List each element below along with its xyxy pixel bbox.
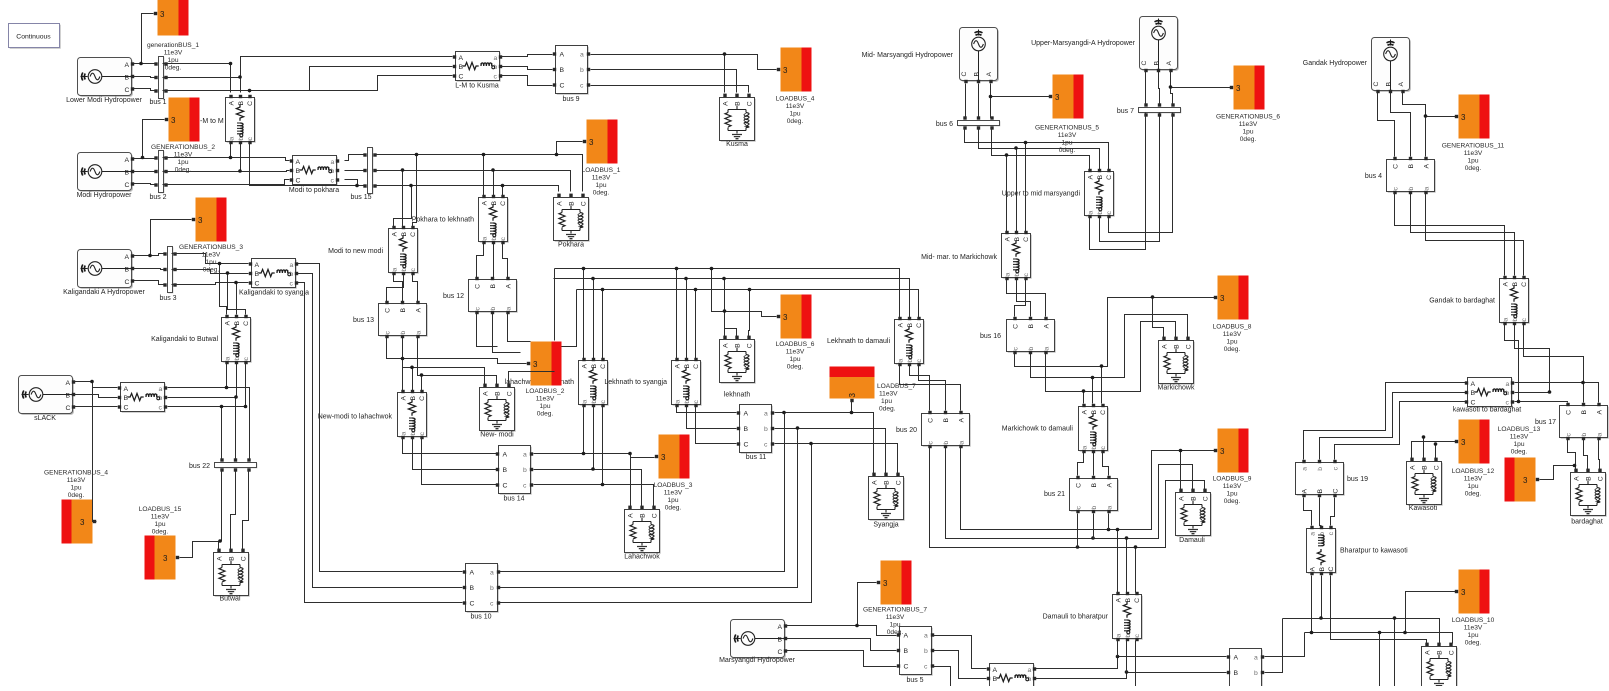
wire bha-kaw B down: [1321, 576, 1323, 619]
svg-text:11e3V: 11e3V: [1058, 132, 1077, 139]
wire tap to display LOADBUS_1: [557, 142, 583, 155]
svg-text:LOADBUS_15: LOADBUS_15: [139, 506, 182, 513]
svg-text:0deg.: 0deg.: [1240, 136, 1257, 143]
junction dots bus17 feeds: [1517, 381, 1585, 404]
svg-text:1pu: 1pu: [177, 159, 188, 166]
generator Upper-Marsyangdi-A Hydropower: [1140, 17, 1179, 73]
svg-text:Gandak Hydropower: Gandak Hydropower: [1303, 60, 1368, 67]
svg-text:LOADBUS_9: LOADBUS_9: [1213, 476, 1252, 483]
wire new-modi-lahachwok c to bus14 C: [422, 439, 497, 485]
svg-text:LOADBUS_12: LOADBUS_12: [1452, 468, 1495, 475]
wire bus4 b to gan-bard b: [1411, 194, 1515, 276]
svg-text:Kaligandaki to syangja: Kaligandaki to syangja: [239, 290, 309, 297]
svg-text:11e3V: 11e3V: [164, 50, 183, 57]
svg-text:Damauli: Damauli: [1179, 537, 1205, 544]
svg-text:11e3V: 11e3V: [1223, 331, 1242, 338]
wire branch to Damauli A: [1180, 451, 1182, 490]
wire sLACK A to line: [75, 382, 118, 388]
svg-text:LOADBUS_1: LOADBUS_1: [582, 167, 621, 174]
wire bus9-a run to display LOADBUS_4: [591, 55, 777, 70]
svg-text:bus 6: bus 6: [936, 121, 953, 128]
display generationBUS_1: [154, 0, 189, 36]
svg-text:11e3V: 11e3V: [151, 514, 170, 521]
wire drop to mid-mar A: [1006, 156, 1008, 232]
svg-text:0deg.: 0deg.: [1465, 165, 1482, 172]
wire tap to display LOADBUS_10: [1406, 592, 1456, 633]
wire G7-C to bus4 C: [1378, 93, 1395, 157]
bus 5 block: [897, 627, 934, 676]
svg-text:0deg.: 0deg.: [175, 167, 192, 174]
wire syangja-line a long run to bus10 A: [298, 264, 463, 572]
svg-text:bus 16: bus 16: [980, 333, 1001, 340]
svg-text:0deg.: 0deg.: [1465, 640, 1482, 647]
wire G1-C to bus 1: [134, 89, 156, 91]
wire G5-A to bus6: [991, 84, 992, 118]
wire kaw-bard c run to bus17 C: [1515, 402, 1568, 403]
display GENERATIOBUS_11: [1455, 95, 1490, 139]
wire mark-dam b to bus21 B: [1093, 453, 1095, 476]
svg-text:New- modi: New- modi: [480, 432, 514, 439]
svg-text:Bharatpur to kawasoti: Bharatpur to kawasoti: [1340, 548, 1408, 555]
junction dot GEN3 tap: [148, 254, 152, 258]
caption LOADBUS_15: [139, 506, 182, 536]
wire drop from y618: [1394, 619, 1396, 687]
svg-text:0deg.: 0deg.: [1511, 449, 1528, 456]
generator Gandak Hydropower: [1372, 38, 1411, 94]
wire branch to Kaligandaki to Butwal C: [228, 274, 246, 315]
bus 15 measurement bar: [363, 148, 376, 195]
wire New-modi C link: [509, 372, 555, 385]
wire bus11 a run to Syangja A: [775, 413, 874, 474]
svg-text:bus 21: bus 21: [1044, 491, 1065, 498]
load New- modi: [480, 384, 516, 432]
svg-text:bus 13: bus 13: [353, 317, 374, 324]
wire dam-bha B up: [1126, 539, 1128, 593]
svg-text:bus 10: bus 10: [470, 614, 491, 621]
wire G1-B to bus 1: [134, 77, 156, 78]
caption LOADBUS_12: [1452, 468, 1495, 498]
load Markichowk: [1159, 337, 1195, 385]
junction dot bardaghat A: [1573, 464, 1577, 468]
load Lahachwok: [625, 506, 661, 554]
svg-text:bus 2: bus 2: [149, 194, 166, 201]
svg-text:1pu: 1pu: [1226, 491, 1237, 498]
svg-text:bus 22: bus 22: [189, 463, 210, 470]
wire dam-bha C up: [1135, 548, 1137, 593]
svg-text:1pu: 1pu: [889, 622, 900, 629]
wire mark-dam c to bus21 A: [1103, 453, 1109, 476]
svg-text:0deg.: 0deg.: [537, 411, 554, 418]
wire bus19 A to bha-kaw a: [1304, 498, 1312, 526]
wire bus22 A drop: [221, 407, 223, 460]
junction dot G5 tap: [989, 95, 993, 99]
wire lek-dam b to bus20 C: [910, 366, 930, 411]
wire G8-C to bus 5: [787, 651, 897, 667]
bus 19 block: [1296, 460, 1345, 497]
wire lahachwok-lekhnath b down: [593, 407, 595, 470]
wire G5-B to bus6: [978, 84, 980, 118]
display LOADBUS_10: [1455, 570, 1490, 614]
wire branch to Kawasoti B: [1423, 438, 1425, 459]
svg-text:GENERATIONBUS_6: GENERATIONBUS_6: [1216, 114, 1280, 121]
wire gan-bard c down: [1524, 325, 1584, 383]
bus 18 block bottom edge: [1227, 649, 1264, 691]
wire K-to-Butwal a down: [226, 364, 228, 388]
svg-text:1pu: 1pu: [70, 485, 81, 492]
wire drop to Modi to new modi A: [394, 186, 412, 227]
wire branch to Kaligandaki to Butwal B: [236, 283, 238, 315]
display LOADBUS_2: [527, 342, 562, 386]
wire gan-bard b down: [1515, 325, 1550, 393]
svg-text:Upper to mid marsyangdi: Upper to mid marsyangdi: [1002, 191, 1081, 198]
wire bus1 A to display generationBUS_1: [142, 14, 154, 64]
wire G6-B to bus7: [1159, 72, 1160, 105]
wire drop to mid-mar B: [1016, 149, 1018, 232]
wire Modi to pokhara a to bus 15: [345, 155, 364, 161]
wire run-C to Lekhnath to damauli C: [577, 290, 919, 318]
wire new-modi-line b to bus13 C: [387, 275, 404, 302]
line at sLACK output: [118, 383, 167, 413]
line Kaligandaki to Butwal: [222, 315, 252, 364]
caption LOADBUS_4: [776, 96, 815, 126]
wire New-modi-to-lahachwok A up: [402, 359, 404, 391]
wire kaw-bard C left run to bus19 c: [1335, 402, 1466, 460]
svg-text:bus 14: bus 14: [503, 496, 524, 503]
svg-text:GENERATIONBUS_4: GENERATIONBUS_4: [44, 470, 108, 477]
junction dots Kawasoti feeds: [1422, 435, 1438, 446]
wire lek-dam c to bus20 B: [919, 366, 946, 411]
wire G1-A to bus 1: [134, 63, 156, 65]
svg-text:Kusma: Kusma: [726, 141, 748, 148]
line kawasoti to bardaghat: [1465, 378, 1514, 408]
svg-text:bus 12: bus 12: [443, 293, 464, 300]
wire display LOADBUS_13 link: [1540, 466, 1575, 480]
wire L-M to M a down: [230, 144, 232, 158]
wire run-A branch to LOADBUS_6: [712, 269, 777, 317]
wire bus5 c down: [934, 667, 951, 687]
wire slack-line a run: [168, 388, 250, 460]
svg-text:Pokhara: Pokhara: [558, 242, 584, 249]
wire bus10 c column: [500, 444, 812, 603]
wire New-modi-to-lahachwok C up: [421, 376, 423, 391]
wire bus20 b run to Damauli B: [946, 448, 1193, 539]
svg-text:bus 5: bus 5: [906, 677, 923, 684]
display GENERATIONBUS_7: [877, 561, 912, 605]
display LOADBUS_1: [583, 120, 618, 164]
wire new-modi-lahachwok b to bus14 B: [413, 439, 497, 470]
svg-text:Upper-Marsyangdi-A Hydropower: Upper-Marsyangdi-A Hydropower: [1031, 40, 1136, 47]
wire bus9-c to Kusma C: [591, 86, 749, 93]
svg-text:11e3V: 11e3V: [202, 252, 221, 259]
wire branch to Markichowk A: [1153, 298, 1164, 339]
wire lahachwok-lekhnath c down: [602, 407, 604, 485]
svg-text:bus 9: bus 9: [562, 96, 579, 103]
wire tap to display GENERATIOBUS_11: [1426, 116, 1456, 118]
wire bus10 b column: [500, 429, 798, 588]
wire bus22 C to Butwal C: [243, 470, 249, 550]
svg-text:Markichowk to damauli: Markichowk to damauli: [1002, 426, 1074, 433]
svg-text:0deg.: 0deg.: [1465, 491, 1482, 498]
svg-text:0deg.: 0deg.: [787, 364, 804, 371]
wire drop to Pokhara to lekhnath C: [502, 186, 504, 196]
wire L-M to Kusma a to bus 9 A: [502, 55, 553, 57]
caption GENERATIONBUS_7: [863, 607, 927, 637]
wire bus16 c run to LOADBUS_8: [1015, 298, 1215, 367]
line Lekhnath to damauli: [895, 317, 925, 366]
wire G8-A to bus 5: [787, 626, 897, 636]
load Syangja: [869, 473, 905, 521]
display LOADBUS_7 rotated: [830, 367, 875, 403]
svg-text:1pu: 1pu: [1226, 339, 1237, 346]
wire bus14 b run to Lahachwok B: [534, 470, 642, 507]
generator Marsyangdi Hydropower: [731, 620, 788, 659]
svg-text:LOADBUS_13: LOADBUS_13: [1498, 426, 1541, 433]
caption LOADBUS_2: [526, 388, 565, 418]
wire bus1-b up to L-M to Kusma A: [241, 57, 453, 78]
wire x554 stub: [554, 269, 556, 341]
bus 16 block: [1007, 317, 1056, 354]
svg-text:1pu: 1pu: [1061, 140, 1072, 147]
junction dots bus13 mesh: [401, 357, 424, 377]
svg-text:11e3V: 11e3V: [1464, 150, 1483, 157]
wire lekhnath-syangja c to bus11 C: [696, 407, 737, 444]
junction dots bus2 runs: [141, 156, 242, 173]
wire bus15-B run to Pokhara B: [375, 171, 571, 192]
svg-text:Continuous: Continuous: [16, 34, 51, 41]
wire bus17 B up: [1583, 383, 1585, 403]
svg-text:Kaligandaki to Butwal: Kaligandaki to Butwal: [151, 336, 218, 343]
wire G6-C to bus7: [1145, 72, 1147, 105]
svg-text:0deg.: 0deg.: [1224, 498, 1241, 505]
display LOADBUS_3: [655, 435, 690, 479]
wire run-C branch to lekhnath load C: [749, 290, 750, 337]
line Marsyangdi to damauli bottom edge: [987, 664, 1036, 691]
wire bus12 c drop: [477, 314, 498, 347]
wire kaw-bard a run to bus17 A: [1515, 383, 1599, 403]
junction dots bottom right: [1310, 616, 1407, 634]
wire mid-mar b to bus16 B: [1017, 280, 1031, 317]
svg-text:GENERATIOBUS_11: GENERATIOBUS_11: [1442, 143, 1505, 150]
svg-text:0deg.: 0deg.: [1224, 346, 1241, 353]
svg-text:Modi Hydropower: Modi Hydropower: [77, 192, 133, 199]
line Upper to mid marsyangdi: [1085, 169, 1115, 218]
junction dots bus14 runs: [582, 452, 632, 487]
wire bus1-c long run to L-M to Kusma C: [250, 76, 453, 91]
wire display LOADBUS_12 to Kawasoti A: [1412, 442, 1456, 459]
wire drop to Modi to new modi B: [402, 171, 404, 227]
junction dots bottom bus feeds: [1116, 655, 1129, 674]
wire pok-lek a to bus12 C: [477, 244, 484, 278]
wire dam-bha A up: [1117, 530, 1119, 593]
wire bus6 C run to upper-mid A: [992, 128, 1090, 170]
svg-text:0deg.: 0deg.: [593, 190, 610, 197]
svg-text:11e3V: 11e3V: [664, 490, 683, 497]
generator Lower Modi Hydropower: [78, 58, 135, 97]
svg-text:LOADBUS_8: LOADBUS_8: [1213, 324, 1252, 331]
svg-text:0deg.: 0deg.: [68, 492, 85, 499]
junction dot G6 tap: [1169, 85, 1173, 89]
svg-text:Kaligandaki A Hydropower: Kaligandaki A Hydropower: [63, 289, 145, 296]
wire bus14 a run to display LOADBUS_3: [534, 454, 655, 458]
display GENERATIONBUS_4 mirrored: [62, 500, 97, 544]
load Pokhara: [554, 194, 590, 242]
generator Mid-Marsyangdi Hydropower: [960, 28, 999, 84]
wire bus6 A run to upper-mid C: [965, 128, 1109, 170]
wire pok-lek c to bus12 A: [503, 244, 508, 278]
svg-text:kawasoti to bardaghat: kawasoti to bardaghat: [1453, 407, 1522, 414]
bus 7 measurement bar: [1139, 103, 1182, 116]
bus 1 measurement bar: [154, 57, 167, 100]
junction dots bus16 runs: [1082, 295, 1155, 393]
svg-text:LOADBUS_3: LOADBUS_3: [654, 482, 693, 489]
wire bus3-C run to Kaligandaki to syangja C: [172, 283, 249, 285]
line Markichowk to damauli: [1079, 404, 1109, 453]
svg-text:bus 17: bus 17: [1535, 419, 1556, 426]
wire bus18 a up to run y632: [1265, 633, 1305, 657]
load Butwal: [214, 549, 250, 597]
svg-text:Mid- mar. to Markichowk: Mid- mar. to Markichowk: [921, 254, 997, 261]
wire drop to Lekhnath-syangja A: [676, 269, 678, 359]
wire bus1-c run: [163, 91, 250, 93]
line Mid- mar. to Markichowk: [1002, 231, 1032, 280]
wire bus1-b run: [163, 78, 241, 93]
svg-text:Lahachwok: Lahachwok: [624, 554, 660, 561]
caption GENERATIONBUS_4: [44, 470, 108, 500]
wire lahachwok-lekhnath a down: [583, 407, 585, 454]
svg-text:GENERATIONBUS_7: GENERATIONBUS_7: [863, 607, 927, 614]
wire new-modi-line a to bus13 B: [394, 275, 403, 302]
wire drop to mid-mar C: [1025, 143, 1027, 232]
svg-text:1pu: 1pu: [539, 403, 550, 410]
wire lekhnath-syangja a to bus11 A: [677, 407, 737, 413]
wire G5-C to bus6: [965, 84, 966, 118]
display LOADBUS_8: [1214, 276, 1249, 320]
wire kaw-bard b run: [1515, 392, 1550, 394]
wire bus11 c run to Syangja C: [775, 444, 898, 474]
wire bus17 a to bardaghat C: [1599, 440, 1600, 470]
wire dam-bha a down: [1117, 641, 1119, 657]
junction dots bus22 feeds: [220, 386, 248, 409]
caption LOADBUS_9: [1213, 476, 1252, 506]
svg-text:Gandak to bardaghat: Gandak to bardaghat: [1429, 298, 1495, 305]
wire bus22 A to Butwal junction: [221, 470, 223, 542]
junction dot Kusma A tap: [723, 52, 727, 56]
load bardaghat: [1571, 469, 1607, 517]
svg-text:GENERATIONBUS_5: GENERATIONBUS_5: [1035, 125, 1099, 132]
svg-text:Mid- Marsyangdi Hydropower: Mid- Marsyangdi Hydropower: [862, 52, 954, 59]
wire G3-C to bus 3: [134, 281, 165, 285]
wire display LOADBUS_15 to Butwal A: [180, 542, 219, 558]
caption LOADBUS_7: [877, 383, 916, 413]
caption LOADBUS_13: [1498, 426, 1541, 456]
wire dam-bha b down: [1126, 641, 1128, 673]
wire bus16 b run to Markichowk C: [1031, 315, 1188, 378]
wire K-to-Butwal c down: [245, 364, 247, 407]
wire bus6 B run to upper-mid B: [979, 128, 1100, 170]
svg-text:11e3V: 11e3V: [1464, 476, 1483, 483]
line New-modi to lahachwok: [398, 390, 428, 439]
wire sLACK C to line: [75, 406, 118, 408]
svg-text:1pu: 1pu: [154, 521, 165, 528]
svg-text:Syangja: Syangja: [873, 522, 898, 529]
wire bus20 c run to Damauli C: [930, 448, 1205, 548]
wire display LOADBUS_7 drop: [851, 402, 853, 413]
wire new-modi-line c to bus13 A: [413, 275, 418, 302]
line Modi to new modi: [389, 226, 419, 275]
wire G3-A to bus 3: [134, 254, 165, 256]
wire bus21 a down: [1108, 514, 1110, 530]
svg-text:New-modi to lahachwok: New-modi to lahachwok: [318, 414, 393, 421]
junction dot G7 tap: [1424, 114, 1428, 118]
svg-text:Damauli to bharatpur: Damauli to bharatpur: [1043, 614, 1109, 621]
wire upper-mid a to bus7: [1090, 113, 1146, 250]
wire lekhnath-syangja b to bus11 B: [687, 407, 737, 429]
bus 2 measurement bar: [154, 151, 167, 194]
wire sLACK B to line: [75, 395, 118, 398]
wire G7-A to bus4 A: [1403, 93, 1426, 157]
wire G2-A to bus 2: [134, 158, 156, 159]
junction dot bus15 c merge: [355, 184, 359, 188]
svg-text:1pu: 1pu: [595, 182, 606, 189]
line Damauli to bharatpur: [1113, 592, 1143, 641]
svg-text:-M to M: -M to M: [200, 118, 224, 125]
bus 9 block: [553, 46, 590, 95]
svg-text:sLACK: sLACK: [34, 415, 56, 422]
wire mid-mar a to bus16 A: [1007, 280, 1046, 317]
svg-text:LOADBUS_10: LOADBUS_10: [1452, 617, 1495, 624]
svg-text:1pu: 1pu: [205, 259, 216, 266]
wire x576 stub: [562, 290, 577, 347]
junction dot G8 tap: [855, 624, 859, 628]
wire display GENERATIONBUS_3 tap: [151, 220, 192, 256]
wire run-B branch to lekhnath load B: [725, 279, 737, 337]
wire drop to Markichowk-damauli A: [1083, 392, 1085, 404]
svg-text:11e3V: 11e3V: [786, 103, 805, 110]
svg-text:11e3V: 11e3V: [592, 175, 611, 182]
display LOADBUS_9: [1214, 429, 1249, 473]
bus 11 block: [737, 405, 774, 454]
line L-M to Kusma: [453, 52, 502, 82]
wire bus5 b to line B: [934, 651, 987, 679]
junction dots bus3 branches: [218, 262, 238, 285]
load lekhnath: [720, 336, 756, 384]
svg-text:1pu: 1pu: [1467, 483, 1478, 490]
wire drop to Pokhara to lekhnath B: [493, 171, 495, 196]
wire drop from y632: [1379, 633, 1381, 687]
wire branch to lekhnath load A: [724, 312, 726, 337]
powergui Continuous block: [9, 24, 61, 49]
display GENERATIONBUS_2: [165, 98, 200, 142]
wire branch to Kawasoti C: [1435, 445, 1437, 459]
generator Modi Hydropower: [78, 153, 135, 192]
wire bus3-B run to Kaligandaki to syangja B: [172, 270, 249, 274]
svg-text:LOADBUS_6: LOADBUS_6: [776, 341, 815, 348]
svg-text:generationBUS_1: generationBUS_1: [147, 42, 199, 49]
caption GENERATIONBUS_6: [1216, 114, 1280, 144]
wire run y632 to load C: [1305, 633, 1453, 644]
svg-text:1pu: 1pu: [1467, 632, 1478, 639]
svg-text:bardaghat: bardaghat: [1571, 519, 1603, 526]
bus 20 block: [922, 411, 971, 448]
wire slack-line c run: [168, 406, 246, 408]
wire display GENERATIONBUS_2 tap: [143, 120, 165, 158]
wire drop to Markichowk-damauli B: [1092, 378, 1094, 404]
svg-text:11e3V: 11e3V: [67, 477, 86, 484]
display GENERATIONBUS_5: [1049, 75, 1084, 119]
wire branch to Kaligandaki to Butwal A: [220, 264, 227, 315]
display GENERATIONBUS_3: [192, 198, 227, 242]
wire G7-B to bus4 B: [1391, 93, 1411, 157]
